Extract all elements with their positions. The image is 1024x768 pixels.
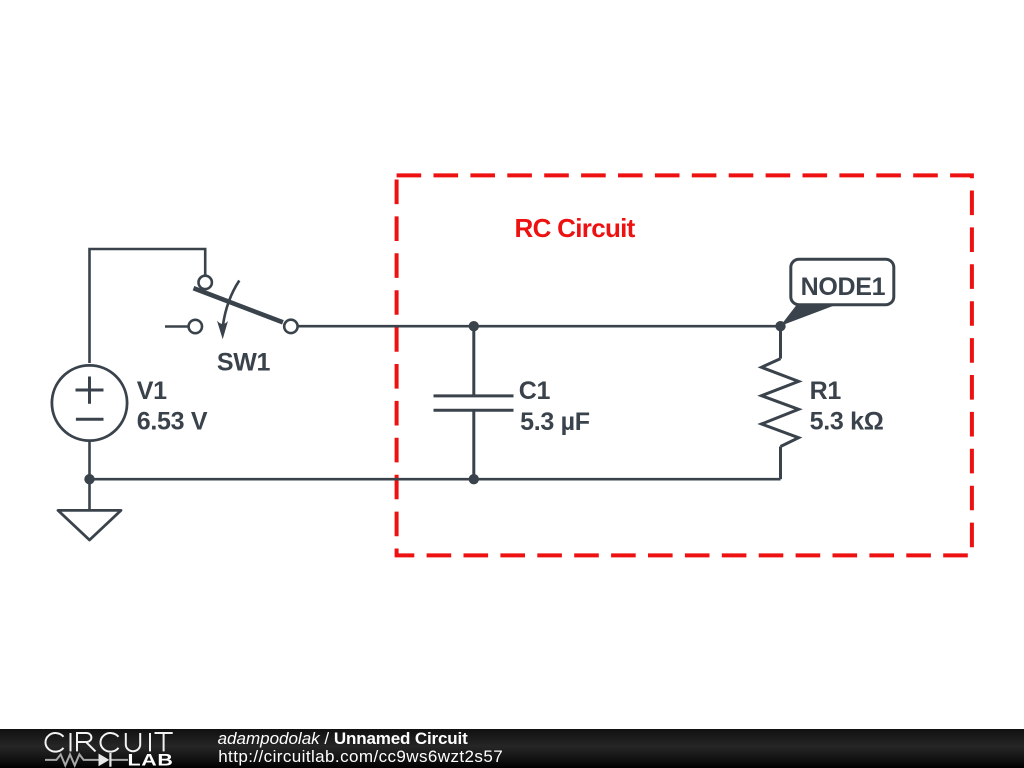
voltage source V1 [52,365,127,479]
switch SW1 [165,276,298,340]
svg-text:5.3 kΩ: 5.3 kΩ [810,408,884,436]
svg-text:C1: C1 [519,377,551,405]
label V1 [137,377,208,436]
junction dot (NODE1) [775,321,785,331]
junction dot (V1 / ground) [84,474,94,484]
svg-text:adampodolak / Unnamed Circuit: adampodolak / Unnamed Circuit [218,729,469,748]
CircuitLab logo resistor-diode wire [45,753,128,767]
svg-text:http://circuitlab.com/cc9ws6wz: http://circuitlab.com/cc9ws6wzt2s57 [218,747,503,766]
junction dot (C1 bottom) [469,474,479,484]
svg-text:RC Circuit: RC Circuit [515,213,636,243]
junction dot (C1 top) [469,321,479,331]
wire switch to node (top rail) [298,325,780,328]
switch lower throw stub [165,325,188,328]
svg-text:V1: V1 [137,377,167,405]
wire bottom rail [90,478,781,481]
CircuitLab logo CIRCUIT letters [45,733,172,752]
switch lower throw pin [189,320,202,333]
resistor R1 [762,326,799,479]
switch top throw pin [199,276,212,289]
svg-text:R1: R1 [810,377,842,405]
footer title text [218,729,504,766]
label C1 [519,377,590,436]
wire V1 top to switch [90,249,206,363]
capacitor C1 [434,326,514,479]
node NODE1 flag [780,259,893,326]
svg-text:SW1: SW1 [217,348,271,376]
svg-text:LAB: LAB [128,752,174,768]
footer bar [0,729,1024,768]
CircuitLab logo LAB [128,752,174,768]
label R1 [810,377,884,436]
svg-text:6.53 V: 6.53 V [137,408,208,436]
annotation box (red dashed) [397,175,972,555]
svg-text:5.3 µF: 5.3 µF [520,408,590,436]
ground [58,479,121,540]
svg-text:NODE1: NODE1 [801,273,886,301]
switch motion arrow [223,281,239,326]
switch lever [194,288,283,322]
switch pole pin [284,320,297,333]
label SW1 [217,348,271,376]
annotation label "RC Circuit" [515,213,636,243]
